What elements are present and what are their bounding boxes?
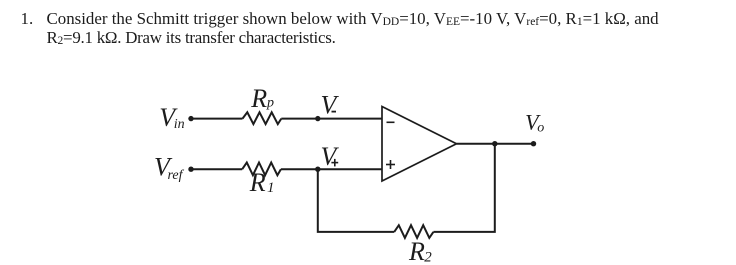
svg-text:p: p (266, 96, 274, 111)
svg-text:R: R (408, 237, 425, 265)
wire Vin to Rp (191, 118, 243, 120)
svg-text:V: V (321, 90, 340, 119)
label V- (321, 90, 340, 119)
label R2 (408, 237, 432, 265)
svg-text:R: R (250, 84, 267, 113)
node V- junction dot (315, 116, 320, 121)
svg-text:in: in (174, 117, 185, 132)
wire Vref to R1 (191, 168, 242, 170)
label Vref (154, 153, 185, 183)
svg-text:V: V (321, 142, 340, 171)
label R1 (249, 168, 275, 197)
svg-text:1: 1 (267, 180, 275, 196)
wire Rp to op-amp inverting input (281, 118, 382, 120)
wire R1 to op-amp non-inverting input (281, 168, 382, 170)
svg-text:2: 2 (424, 249, 432, 265)
op-amp minus sign (387, 121, 395, 123)
op-amp U1 triangle (382, 107, 457, 182)
node Vo terminal dot (531, 141, 536, 146)
label Rp (250, 84, 274, 113)
problem text line 1 number (21, 11, 34, 28)
svg-text:ref: ref (168, 168, 185, 183)
wire output junction down and left to R2 (433, 143, 494, 232)
label V+ (321, 142, 340, 171)
node V+ junction dot (315, 167, 320, 172)
svg-text:R: R (249, 168, 266, 197)
label Vin (159, 103, 184, 132)
wire R2 left then up to V+ node (318, 169, 394, 232)
node output junction dot (492, 141, 497, 146)
resistor R2 (394, 225, 433, 238)
problem text line 2 (47, 30, 336, 47)
resistor Rp (243, 112, 282, 124)
svg-text:o: o (537, 121, 544, 136)
node Vin terminal dot (188, 116, 193, 121)
problem text line 1 (47, 11, 659, 28)
label Vo (525, 109, 544, 135)
node Vref terminal dot (188, 167, 193, 172)
op-amp plus sign (386, 160, 395, 169)
wire op-amp output to Vo (457, 143, 534, 145)
resistor R1 (242, 163, 281, 176)
